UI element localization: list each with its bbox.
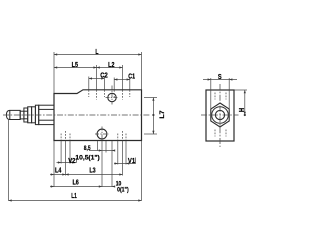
svg-text:8,5: 8,5 xyxy=(84,145,91,152)
svg-text:C2: C2 xyxy=(100,73,108,80)
svg-text:0(1"): 0(1") xyxy=(117,187,129,194)
svg-text:L7: L7 xyxy=(159,110,166,119)
svg-text:L5: L5 xyxy=(72,62,78,69)
svg-text:S: S xyxy=(218,74,222,81)
svg-text:L1: L1 xyxy=(71,193,77,200)
svg-text:L4: L4 xyxy=(55,167,61,174)
svg-text:V1: V1 xyxy=(128,158,135,165)
svg-text:C1: C1 xyxy=(128,74,135,81)
svg-text:10,5(1"): 10,5(1") xyxy=(75,154,99,161)
svg-text:L6: L6 xyxy=(72,180,78,187)
svg-text:H: H xyxy=(239,108,246,112)
svg-text:L2: L2 xyxy=(108,62,114,69)
svg-text:V2: V2 xyxy=(68,158,75,165)
svg-text:L: L xyxy=(95,49,99,56)
svg-text:L3: L3 xyxy=(89,167,95,174)
